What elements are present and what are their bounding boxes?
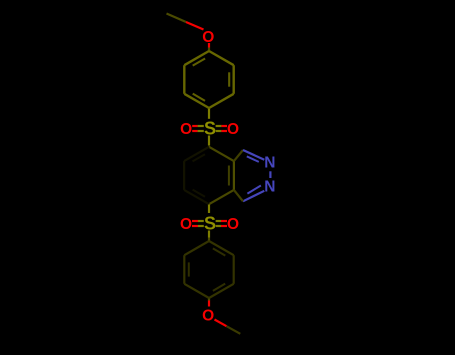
pyridazine N3=C4 double bond main line (blue) [243, 191, 264, 202]
phthalazine benzo ring edge C8-C8a (T-UR) [209, 147, 234, 161]
S=O double bond left (red halves, bottom) [192, 220, 198, 222]
top benzene ring edge LR-B [209, 94, 234, 108]
phthalazine benzo ring edge C7-C8 (UL-T) [184, 147, 209, 161]
svg-text:O: O [180, 121, 192, 138]
methyl bond CH3-O (top methoxy, red oxygen half) [186, 22, 204, 30]
S=O double bond left (red halves) [192, 125, 197, 127]
S=O double bond left (olive halves) [198, 125, 204, 127]
svg-text:N: N [264, 178, 275, 195]
methyl bond O-CH3 (dark carbon half, bottom) [227, 326, 241, 334]
svg-text:O: O [202, 307, 214, 324]
bond O-C1' (red half under O) [208, 43, 210, 48]
phthalazine benzo ring edge C4a-C5 (LR-B) [209, 190, 234, 204]
bond C4''-O (red half above O, bottom) [208, 301, 210, 307]
S=O double bond right (olive halves, bottom) [216, 220, 221, 222]
pyridazine C1=N2 inner mark [247, 156, 259, 162]
top benzene double bond inner mark B-LL [193, 94, 205, 101]
bond S-C1'' (bottom sulfonyl to bottom aryl) [208, 231, 210, 238]
svg-text:O: O [227, 121, 239, 138]
top benzene double bond inner mark UR-LR [228, 72, 230, 86]
top benzene ring edge T-UR [209, 51, 234, 65]
bottom benzene double bond inner mark LR-B [213, 284, 225, 291]
top benzene ring edge UL-T [184, 51, 209, 65]
top benzene ring edge LL-UL [183, 65, 185, 94]
bond C4''-O (dark carbon half, bottom) [208, 299, 210, 302]
bottom benzene ring edge LR-B [209, 284, 234, 298]
S=O double bond right (olive halves) [216, 125, 222, 127]
methyl bond CH3-O (top methoxy, dark carbon half) [167, 14, 187, 23]
bottom benzene ring edge B-LL [184, 284, 209, 298]
S=O double bond right (red halves) [221, 125, 227, 127]
S=O double bond left (olive halves, bottom) [198, 220, 204, 222]
bond C4'-S (aryl to sulfonyl S, top) [208, 109, 210, 119]
bond S-C8 (sulfonyl to phthalazine C8) [208, 136, 210, 146]
phthalazine benzo ring edge C5-C6 (B-LL) [184, 190, 209, 204]
methyl bond O-CH3 (red oxygen half, bottom) [215, 320, 227, 327]
phthalazine benzo ring edge C6-C7 (LL-UL) [183, 161, 185, 190]
bottom benzene ring edge UL-T [184, 241, 209, 255]
top benzene ring edge B-LL [184, 94, 209, 108]
bond C5-S (phthalazine to bottom sulfonyl) [208, 205, 210, 214]
bond O-C1' (dark carbon half) [208, 48, 210, 52]
pyridazine ring bond C4-C4a [234, 190, 243, 201]
pyridazine ring bond C8a-C1 [234, 150, 243, 161]
benzo double bond inner mark C5-C6 [193, 190, 205, 197]
N2-N3 bond [269, 171, 271, 178]
S=O double bond right (red halves, bottom) [221, 220, 227, 222]
pyridazine N3=C4 inner mark [247, 186, 261, 194]
top benzene double bond inner mark UL-T [193, 59, 205, 66]
phthalazine fusion bond C8a-C4a (UR-LR) [233, 161, 235, 190]
svg-text:O: O [180, 216, 192, 233]
bottom benzene double bond inner mark T-UR [213, 248, 225, 255]
phthalazine fusion double bond inner mark [228, 166, 230, 186]
top benzene ring edge UR-LR [232, 65, 234, 94]
bottom benzene ring edge LL-UL [183, 255, 185, 284]
pyridazine C1=N2 double bond main line (blue) [243, 150, 264, 160]
svg-text:N: N [264, 155, 275, 172]
benzo double bond inner mark C7-C8 [193, 154, 206, 161]
svg-text:O: O [227, 216, 239, 233]
bottom benzene ring edge UR-LR [233, 255, 235, 284]
bottom benzene ring edge T-UR [209, 241, 234, 255]
bottom benzene double bond inner mark LL-UL [188, 262, 190, 276]
